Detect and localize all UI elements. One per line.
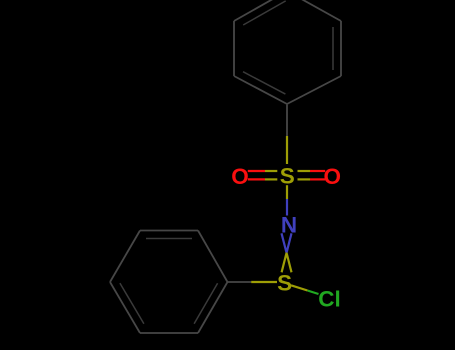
ring edge C9-C10 <box>110 231 140 283</box>
left phenyl ring C7-C12 <box>110 231 228 334</box>
ring edge C7-C8 <box>198 231 228 283</box>
svg-text:O: O <box>324 164 342 189</box>
inner double bond C10-C11 <box>120 283 144 324</box>
S1=O2 double bond lower line sulfur half <box>298 178 311 180</box>
inner double bond C1-C2 <box>243 72 285 94</box>
N=S2 crossed double bond line1 sulfur half <box>287 253 292 273</box>
svg-text:O: O <box>231 164 249 189</box>
ring edge C12-C7 <box>198 282 228 333</box>
bond S1-N sulfur half <box>286 185 288 199</box>
bond C1-S1 sulfur half <box>286 136 288 164</box>
ring edge C8-C9 <box>140 230 198 232</box>
bond S2-Cl chlorine half <box>308 291 319 295</box>
bond S2-Cl sulfur half <box>291 285 308 290</box>
bond C1-S1 gray half <box>286 105 288 137</box>
ring edge C5-C6 <box>340 21 342 76</box>
S1=O1 double bond upper line red half <box>248 170 265 172</box>
S1=O1 double bond upper line sulfur half <box>265 170 277 172</box>
ring edge C3-C4 <box>234 0 287 21</box>
svg-text:N: N <box>281 212 297 237</box>
N=S2 crossed double bond line2 nitrogen half <box>287 233 292 252</box>
ring edge C2-C3 <box>233 21 235 76</box>
S1=O2 double bond upper line sulfur half <box>298 170 311 172</box>
top phenyl ring C1-C6 <box>234 0 341 104</box>
ring edge C10-C11 <box>110 282 140 333</box>
svg-text:S: S <box>277 270 292 295</box>
N=S2 crossed double bond line1 nitrogen half <box>282 233 287 252</box>
S1=O2 double bond upper line red half <box>310 170 325 172</box>
bond C7-S2 sulfur half <box>251 281 277 283</box>
bond C7-S2 gray half <box>228 281 252 283</box>
ring edge C11-C12 <box>140 332 198 334</box>
S1=O2 double bond lower line red half <box>310 178 325 180</box>
inner double bond C8-C9 <box>146 238 192 240</box>
inner double bond C3-C4 <box>243 1 286 25</box>
ring edge C6-C1 <box>287 76 341 104</box>
S1=O1 double bond lower line sulfur half <box>265 178 277 180</box>
inner double bond C12-C7 <box>194 283 218 324</box>
N=S2 crossed double bond line2 sulfur half <box>282 253 287 273</box>
svg-text:S: S <box>280 164 295 189</box>
inner double bond C5-C6 <box>332 27 334 70</box>
ring edge C4-C5 <box>287 0 341 21</box>
bond S1-N nitrogen half <box>286 199 288 216</box>
svg-text:Cl: Cl <box>318 287 341 312</box>
ring edge C1-C2 <box>234 76 287 104</box>
S1=O1 double bond lower line red half <box>248 178 265 180</box>
